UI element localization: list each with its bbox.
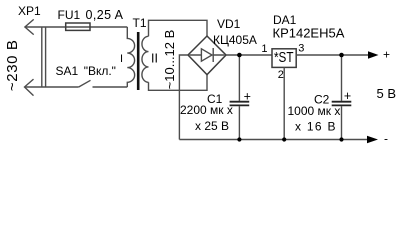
svg-text:+: + — [344, 89, 351, 103]
capacitor C1 leads — [238, 55, 240, 140]
svg-text:XP1: XP1 — [18, 4, 41, 18]
svg-text:*ST: *ST — [274, 49, 294, 66]
node junction rail pin2 — [282, 137, 286, 141]
wire bridge minus to bottom rail — [179, 55, 188, 140]
svg-text:1: 1 — [261, 43, 267, 55]
svg-text:II: II — [151, 52, 158, 66]
svg-text:3: 3 — [298, 43, 304, 55]
output arrow minus — [367, 136, 378, 143]
diode inside VD1 — [190, 48, 225, 62]
regulator DA1 body — [272, 49, 296, 68]
wire bottom mains left — [25, 86, 79, 88]
plug XP1 pin top — [25, 19, 34, 34]
capacitor C1 plates — [230, 102, 250, 106]
svg-text:FU1: FU1 — [58, 8, 81, 22]
svg-text:SA1: SA1 — [56, 64, 79, 78]
svg-text:0,25 A: 0,25 A — [86, 8, 124, 22]
capacitor C2 plates — [332, 102, 352, 106]
plug XP1 pin bottom — [25, 79, 34, 96]
node junction top C2 — [339, 53, 344, 58]
svg-text:I: I — [120, 53, 123, 65]
svg-text:+: + — [383, 48, 390, 62]
wire mains double vertical — [42, 27, 46, 87]
node junction rail C1 — [237, 137, 241, 141]
switch SA1 lever — [79, 80, 91, 87]
node junction rail C2 — [339, 137, 343, 141]
wire top mains — [25, 26, 127, 28]
transformer T1 secondary winding — [142, 36, 149, 82]
wire regulator output — [296, 54, 368, 56]
svg-text:~230 В: ~230 В — [4, 40, 21, 92]
wire bottom mains right — [93, 86, 128, 88]
svg-text:-: - — [384, 131, 388, 145]
svg-text:КР142ЕН5А: КР142ЕН5А — [273, 26, 345, 41]
wire bottom rail — [179, 139, 367, 141]
wire regulator pin2 to rail — [283, 67, 285, 139]
wire secondary bottom to bridge — [149, 75, 208, 90]
transformer T1 core — [137, 32, 140, 90]
svg-text:х 25 В: х 25 В — [195, 119, 229, 133]
svg-text:~10...12 В: ~10...12 В — [162, 30, 177, 90]
svg-text:х 16 В: х 16 В — [295, 120, 337, 134]
fuse FU1 body — [66, 23, 90, 30]
svg-text:"Вкл.": "Вкл." — [84, 64, 116, 78]
svg-text:2200 мк х: 2200 мк х — [180, 103, 233, 117]
node junction top C1 — [237, 53, 242, 58]
svg-text:VD1: VD1 — [217, 17, 241, 31]
bridge rectifier VD1 diamond — [188, 36, 226, 75]
svg-text:2: 2 — [278, 69, 284, 81]
svg-text:+: + — [244, 89, 251, 103]
wire secondary top to bridge — [149, 20, 208, 36]
svg-text:T1: T1 — [133, 16, 147, 30]
output arrow plus — [368, 51, 379, 58]
capacitor C2 leads — [341, 55, 343, 140]
svg-text:КЦ405А: КЦ405А — [213, 33, 257, 47]
svg-text:5 В: 5 В — [377, 86, 397, 101]
wire bridge plus to regulator — [226, 54, 272, 56]
transformer T1 primary winding — [127, 27, 134, 87]
svg-text:1000 мк х: 1000 мк х — [288, 104, 341, 118]
